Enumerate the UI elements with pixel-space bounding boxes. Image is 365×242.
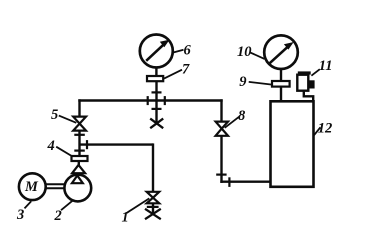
- wire gauge 10 stem: [280, 69, 282, 82]
- svg-text:10: 10: [237, 44, 252, 60]
- svg-text:5: 5: [51, 107, 58, 123]
- wire below valve 5: [78, 131, 80, 157]
- wire main horizontal line: [78, 99, 222, 101]
- leader line for 1: [127, 198, 150, 213]
- svg-text:7: 7: [182, 62, 190, 78]
- wire stem from 7 to junction: [155, 81, 157, 123]
- leader line for 5: [59, 116, 77, 123]
- leader line for 11: [311, 69, 319, 76]
- gauge U6 needle arrow: [146, 40, 169, 61]
- wire from valve 11 to tank: [304, 91, 313, 102]
- plugged vent X below junction: [150, 119, 163, 129]
- flange tick on tank feed line: [228, 177, 230, 187]
- valve V8 bowtie: [216, 122, 228, 136]
- wire drop to valve 1: [152, 143, 154, 192]
- relief valve 11 body: [297, 75, 308, 91]
- wire stem below fitting 4: [78, 161, 80, 166]
- fitting 7 rectangle: [147, 76, 163, 81]
- svg-text:8: 8: [238, 108, 246, 124]
- flange tick above fitting 4: [74, 150, 85, 152]
- wire gauge 6 stem: [155, 68, 157, 77]
- fitting 9 rectangle: [272, 81, 290, 87]
- leader line for 6: [172, 50, 184, 53]
- leader line for 9: [249, 82, 272, 85]
- flange tick below valve 8: [216, 174, 226, 176]
- leader line for 2: [61, 200, 74, 210]
- gauge U10 circle: [264, 35, 298, 69]
- svg-text:3: 3: [16, 207, 24, 223]
- flange tick right of junction: [164, 96, 166, 105]
- svg-text:M: M: [24, 179, 39, 195]
- relief valve 11 side block: [310, 81, 314, 88]
- valve V5 bowtie: [73, 117, 86, 131]
- fitting 4 rectangle: [72, 156, 88, 161]
- flange tick below valve 1: [147, 206, 159, 208]
- leader line for 10: [250, 52, 265, 59]
- pump P2 circle: [64, 175, 91, 202]
- flange tick below junction: [152, 108, 162, 110]
- wire below valve 1: [152, 203, 154, 214]
- tank 12 rectangle: [271, 101, 314, 187]
- wire right riser to valve 8: [220, 99, 222, 122]
- flange tick below valve 5: [74, 134, 85, 136]
- svg-text:6: 6: [184, 42, 192, 58]
- pump P2 inner triangle: [72, 176, 83, 184]
- relief valve 11 cap: [298, 71, 311, 74]
- wire to tank: [220, 180, 270, 182]
- leader line for 4: [56, 147, 72, 157]
- wire tee line to valve 1: [80, 143, 154, 145]
- motor M3 circle: [19, 173, 46, 200]
- wire left riser to valve 5: [78, 99, 80, 117]
- gauge U6 circle: [140, 35, 173, 68]
- wire below valve 8: [220, 136, 222, 183]
- coupling double line: [46, 184, 65, 188]
- check valve triangle above pump: [72, 165, 85, 173]
- flange tick left of junction: [147, 96, 149, 105]
- leader line for 7: [164, 70, 182, 79]
- flange tick on tee line: [86, 140, 88, 149]
- wire stem from 9 to tank: [280, 87, 282, 102]
- leader line for 8: [225, 117, 239, 128]
- leader line for 12: [314, 127, 320, 135]
- gauge U10 needle arrow: [269, 42, 293, 64]
- svg-text:9: 9: [239, 74, 246, 90]
- svg-text:1: 1: [122, 209, 129, 225]
- svg-text:11: 11: [319, 58, 333, 74]
- plugged vent X below valve 1: [145, 209, 161, 219]
- svg-text:2: 2: [54, 208, 62, 224]
- svg-text:4: 4: [47, 138, 55, 154]
- svg-text:12: 12: [318, 120, 333, 136]
- leader line for 3: [25, 201, 32, 208]
- valve V1 bowtie: [147, 192, 160, 204]
- flange tick above junction: [152, 91, 162, 93]
